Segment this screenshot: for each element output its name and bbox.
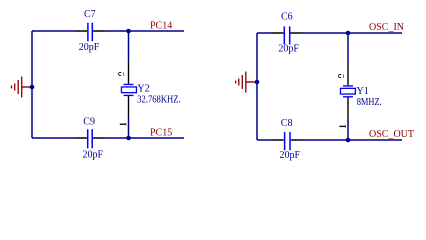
- pin 2 of Y1: [338, 74, 343, 78]
- wire bottom-left segment of left circuit: [32, 137, 76, 139]
- pin 2 of Y2: [119, 72, 124, 76]
- svg-text:PC14: PC14: [150, 21, 172, 32]
- crystal Y1: [340, 64, 355, 119]
- wire top-right segment of left circuit: [105, 30, 185, 32]
- pin 1 of Y1: [339, 125, 345, 128]
- svg-text:C9: C9: [83, 116, 95, 127]
- pin 1 of Y2: [120, 123, 126, 126]
- label Y2: [137, 84, 149, 95]
- value 20pF of C8: [280, 150, 301, 161]
- value 32.768KHZ of Y2: [137, 95, 181, 106]
- wire bottom-right segment of left circuit: [105, 137, 185, 139]
- junction at C7 output node: [126, 29, 131, 34]
- wire from crystal Y1 down to bottom junction: [347, 119, 349, 140]
- svg-text:C8: C8: [281, 118, 293, 129]
- capacitor C6: [272, 26, 303, 44]
- svg-text:Y2: Y2: [137, 84, 149, 95]
- svg-text:C6: C6: [281, 11, 293, 22]
- wire from crystal Y2 down to bottom junction: [128, 117, 130, 138]
- label Y1: [357, 86, 369, 97]
- label C7: [84, 9, 96, 20]
- svg-text:Y1: Y1: [357, 86, 369, 97]
- label C9: [83, 116, 95, 127]
- capacitor C9: [76, 129, 105, 148]
- ground symbol left circuit: [12, 77, 34, 98]
- wire bottom-left segment of right circuit: [257, 139, 272, 141]
- svg-text:OSC_OUT: OSC_OUT: [369, 129, 414, 140]
- capacitor C7: [76, 23, 105, 42]
- svg-text:20pF: 20pF: [79, 42, 100, 53]
- svg-text:20pF: 20pF: [278, 43, 299, 54]
- label C6: [281, 11, 293, 22]
- junction at ground attach right circuit: [255, 80, 260, 85]
- wire bottom-right segment of right circuit: [303, 139, 403, 141]
- svg-text:8MHZ.: 8MHZ.: [357, 97, 382, 108]
- value 8MHZ of Y1: [357, 97, 382, 108]
- svg-text:32.768KHZ.: 32.768KHZ.: [137, 95, 181, 106]
- svg-text:PC15: PC15: [150, 127, 172, 138]
- net label OSC_IN: [369, 22, 404, 33]
- ground symbol right circuit: [236, 72, 258, 93]
- wire top-left segment of left circuit: [32, 30, 76, 32]
- wire from top junction down to crystal Y2: [128, 31, 130, 61]
- junction at C6 output node: [346, 31, 351, 36]
- net label PC15: [150, 127, 172, 138]
- net label OSC_OUT: [369, 129, 414, 140]
- svg-text:20pF: 20pF: [83, 149, 104, 160]
- capacitor C8: [272, 132, 303, 150]
- wire left vertical of left circuit: [31, 31, 33, 138]
- junction at C8 output node: [346, 138, 351, 143]
- wire top-left segment of right circuit: [257, 32, 272, 34]
- junction at C9 output node: [126, 136, 131, 141]
- junction at ground attach left circuit: [30, 85, 35, 90]
- value 20pF of C9: [83, 149, 104, 160]
- svg-text:C7: C7: [84, 9, 96, 20]
- crystal Y2: [121, 61, 136, 117]
- value 20pF of C6: [278, 43, 299, 54]
- wire left vertical of right circuit: [256, 33, 258, 140]
- wire top-right segment of right circuit: [303, 32, 403, 34]
- label C8: [281, 118, 293, 129]
- svg-text:20pF: 20pF: [280, 150, 301, 161]
- value 20pF of C7: [79, 42, 100, 53]
- net label PC14: [150, 21, 172, 32]
- wire from top junction down to crystal Y1: [347, 33, 349, 64]
- svg-text:OSC_IN: OSC_IN: [369, 22, 404, 33]
